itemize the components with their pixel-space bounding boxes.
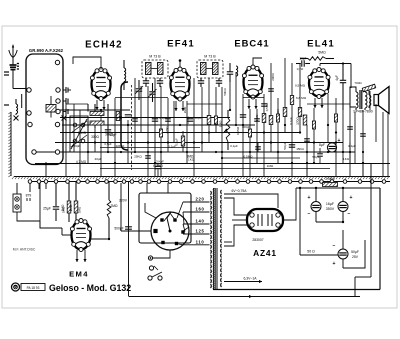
label Geloso Mod G132 xyxy=(49,283,131,293)
label R8 xyxy=(296,117,300,125)
badge box xyxy=(21,284,45,291)
svg-text:0,1µF: 0,1µF xyxy=(230,144,238,148)
tube EF41 arrows xyxy=(174,101,184,111)
cap C30 xyxy=(255,147,261,149)
svg-text:1MΩ: 1MΩ xyxy=(69,204,73,211)
svg-text:0,1µF: 0,1µF xyxy=(348,144,356,148)
left margin terminal a xyxy=(4,72,9,75)
voltage tap 160 xyxy=(183,207,205,224)
wire stub c xyxy=(249,163,251,176)
wire sec mid xyxy=(224,238,264,242)
cap C31 3KpF xyxy=(155,160,165,177)
tube ECH42 xyxy=(90,68,111,101)
svg-text:50µF: 50µF xyxy=(351,250,359,254)
resistor R25 xyxy=(298,108,301,117)
terminal 1 xyxy=(55,60,59,64)
wire jack top xyxy=(17,183,46,194)
cathode resistor R8 xyxy=(303,115,307,125)
filter caps label xyxy=(326,202,335,211)
rotary switch wiper xyxy=(167,212,172,233)
wire switch top loop xyxy=(145,203,156,218)
wire stub f xyxy=(306,163,308,176)
svg-text:170Ω: 170Ω xyxy=(296,117,300,125)
svg-text:879: 879 xyxy=(26,194,32,198)
chassis bus hatched xyxy=(12,177,390,180)
wire bus y163 xyxy=(35,163,390,165)
svg-text:110: 110 xyxy=(196,239,205,244)
wire el41 plate xyxy=(320,62,351,88)
resistor R14 xyxy=(276,108,287,117)
label 03M xyxy=(297,67,304,71)
wire filter v3 xyxy=(342,221,344,268)
cap C19 50uF xyxy=(333,243,359,267)
wire stub g xyxy=(335,152,337,176)
wire switch left xyxy=(129,230,152,232)
trimmer X1 xyxy=(14,116,19,121)
IF transformer T2 box xyxy=(142,60,168,78)
tube EL41 arrows xyxy=(313,98,323,108)
svg-text:+: + xyxy=(333,261,336,267)
label R1 xyxy=(61,204,65,211)
resistor R20 xyxy=(248,129,251,137)
cap C20 xyxy=(132,119,138,121)
svg-text:3 KpF: 3 KpF xyxy=(156,160,164,164)
wire filter h50 xyxy=(300,254,338,256)
label speaker xyxy=(353,110,373,114)
power transformer T5 secondary xyxy=(220,190,223,287)
svg-text:1MΩ: 1MΩ xyxy=(267,164,274,168)
svg-text:0,5µF: 0,5µF xyxy=(175,138,179,146)
cap C25 xyxy=(347,127,353,129)
IF T3 cap a xyxy=(198,78,204,87)
svg-text:16µF: 16µF xyxy=(326,202,335,206)
label 1MΩ c xyxy=(267,164,274,168)
svg-text:M.F. ANT.DISC: M.F. ANT.DISC xyxy=(13,248,36,252)
svg-text:50pF: 50pF xyxy=(195,116,202,120)
label 1KΩ xyxy=(343,157,350,161)
contact K3 xyxy=(63,109,68,115)
svg-text:6,8 MΩ: 6,8 MΩ xyxy=(296,96,307,100)
label C11 xyxy=(335,75,339,81)
label 50ohm xyxy=(307,250,315,254)
osc shield bracket xyxy=(121,82,128,150)
wire az41 anode bot xyxy=(224,225,247,246)
grid resistor R7 xyxy=(300,57,334,61)
label 0,5µF h xyxy=(104,142,111,146)
wire em4 grid xyxy=(62,228,72,235)
lamp symbol xyxy=(149,266,158,270)
label 20KΩ top xyxy=(271,72,275,80)
label 50pF xyxy=(109,133,116,137)
svg-text:EL41: EL41 xyxy=(307,39,335,50)
svg-text:283007: 283007 xyxy=(252,238,263,242)
svg-text:M 73 B: M 73 B xyxy=(204,55,216,59)
label GRUPPO A.F. xyxy=(29,48,64,53)
IF T2 coil a xyxy=(146,63,152,75)
wire sec bottom xyxy=(0,0,1,1)
contact K1 xyxy=(63,87,71,93)
osc screen dashed xyxy=(131,85,133,170)
osc coil T1 xyxy=(124,60,126,90)
wire stub e xyxy=(221,163,223,176)
resistor R24 xyxy=(290,96,293,105)
label R16 xyxy=(110,204,118,208)
junction dots xyxy=(100,109,364,164)
cap C12 xyxy=(152,116,167,121)
svg-text:30KΩ: 30KΩ xyxy=(105,133,114,137)
wire az41 anode top xyxy=(224,198,247,215)
svg-text:PA 18 93: PA 18 93 xyxy=(27,286,40,290)
contact K2 xyxy=(63,98,68,104)
svg-text:+: + xyxy=(338,138,341,144)
wire ef41 top xyxy=(179,59,182,66)
wire az41 left xyxy=(232,219,247,221)
svg-text:300Ω: 300Ω xyxy=(91,135,99,139)
svg-text:220: 220 xyxy=(195,197,204,202)
cap C23 xyxy=(254,119,260,121)
label EBC41 xyxy=(234,38,269,49)
svg-text:EF41: EF41 xyxy=(167,39,195,50)
label 0,1µF b xyxy=(168,145,176,149)
IF T2 cap b xyxy=(157,78,163,87)
terminal 10 xyxy=(55,150,59,154)
speaker LS1 cone xyxy=(374,87,389,114)
shield hatch left xyxy=(8,112,11,177)
bypass cap C10 xyxy=(327,143,336,152)
svg-text:700Ω: 700Ω xyxy=(354,81,362,85)
terminal 7 xyxy=(28,122,32,126)
label 200pF xyxy=(72,144,81,148)
wire stub i xyxy=(362,163,364,176)
resistor R23 xyxy=(334,114,337,122)
label 25KΩ xyxy=(134,155,142,159)
tube EL41 xyxy=(308,68,330,99)
tube EM4 xyxy=(70,219,91,252)
label 0,5µF v xyxy=(175,138,179,146)
wire ebc41 top xyxy=(253,58,262,65)
IF T2 coil b xyxy=(152,63,164,75)
svg-text:EM4: EM4 xyxy=(69,270,89,279)
heater line bottom xyxy=(224,277,262,284)
IF T3 cap b xyxy=(216,78,222,87)
label C3 xyxy=(43,207,51,211)
svg-text:0,5 MΩ: 0,5 MΩ xyxy=(295,83,306,87)
svg-text:2,5KΩ: 2,5KΩ xyxy=(325,177,335,181)
cap C22 xyxy=(165,119,171,121)
label ant small xyxy=(13,248,36,252)
filter cap C18 xyxy=(338,195,353,217)
resistor R5 xyxy=(116,112,120,121)
tone cap C11 xyxy=(340,64,346,110)
svg-text:140: 140 xyxy=(195,219,204,224)
tube EBC41 arrows xyxy=(247,99,257,109)
resistor R12 xyxy=(207,116,211,125)
label 0,5MΩ top xyxy=(265,102,269,111)
wire filter v2 xyxy=(342,188,344,222)
resistor R19 xyxy=(214,116,217,124)
voltage tap 220 xyxy=(177,197,205,218)
cap C13 xyxy=(187,116,202,121)
wire right drop xyxy=(213,188,380,290)
cap C21 xyxy=(145,156,151,158)
label C9 xyxy=(299,57,306,61)
resistor R3 lead xyxy=(88,104,95,128)
trimmer block box xyxy=(70,116,88,152)
label 879 xyxy=(26,194,32,198)
wire switch stem xyxy=(153,250,170,258)
svg-text:0,5µF: 0,5µF xyxy=(104,142,111,146)
wire antenna to terminal xyxy=(13,70,27,89)
svg-text:125: 125 xyxy=(195,229,204,234)
svg-text:15KΩ: 15KΩ xyxy=(296,147,304,151)
rotary switch SW1 circle xyxy=(151,212,189,250)
label 470Ω xyxy=(165,126,169,134)
wire em4 left xyxy=(40,221,62,228)
wire bus y104 seg xyxy=(66,103,350,105)
wire heater right xyxy=(354,277,356,296)
label EM4 xyxy=(69,270,89,279)
svg-text:50KΩ: 50KΩ xyxy=(223,88,227,96)
wire group left leg xyxy=(21,94,23,108)
svg-text:GR.990 A.F.X262: GR.990 A.F.X262 xyxy=(29,48,64,53)
svg-text:0,25M: 0,25M xyxy=(236,126,240,135)
svg-text:0,5M: 0,5M xyxy=(255,114,259,121)
coil L3 det xyxy=(236,66,238,76)
svg-text:6V~0,75A: 6V~0,75A xyxy=(232,189,248,193)
svg-text:+: + xyxy=(350,195,353,201)
svg-text:0,1µF: 0,1µF xyxy=(289,117,293,125)
filter cap C17 xyxy=(308,195,321,217)
svg-text:100pF: 100pF xyxy=(242,125,250,129)
wire stub h xyxy=(349,143,351,164)
svg-text:1MΩ: 1MΩ xyxy=(78,207,82,213)
wire bus y158 seg xyxy=(222,157,300,159)
label EF41 xyxy=(167,39,195,50)
terminal 8 xyxy=(32,150,36,154)
resistor R18 xyxy=(159,129,162,137)
wire em4 arrows xyxy=(75,250,86,262)
wire bus y142 xyxy=(55,142,343,144)
svg-text:25KΩ: 25KΩ xyxy=(134,155,142,159)
svg-text:2MΩ: 2MΩ xyxy=(183,106,187,113)
label R7 xyxy=(318,51,326,55)
svg-text:220V: 220V xyxy=(119,199,128,203)
svg-text:200pF: 200pF xyxy=(72,144,81,148)
cap C27 ebc xyxy=(261,104,267,106)
output transformer T4 xyxy=(350,87,371,110)
terminal 2 xyxy=(27,88,31,92)
resistor R26 xyxy=(181,131,184,152)
label 15KΩ xyxy=(296,147,304,151)
badge logo xyxy=(12,283,20,291)
svg-text:0,7Ω: 0,7Ω xyxy=(297,67,304,71)
resistor R21 xyxy=(276,114,279,122)
svg-text:Geloso - Mod. G132: Geloso - Mod. G132 xyxy=(49,283,131,293)
power transformer T5 core xyxy=(213,188,217,289)
svg-text:40µF: 40µF xyxy=(95,157,102,161)
wire bus y147 seg xyxy=(100,147,200,149)
IF T3 coil b xyxy=(207,63,219,75)
svg-text:4µF: 4µF xyxy=(335,75,339,81)
wire bus y132 xyxy=(60,132,300,134)
label ECH42 xyxy=(85,40,123,51)
label C10 xyxy=(319,143,325,147)
mains switch SW2 xyxy=(148,272,162,280)
svg-text:−: − xyxy=(348,211,351,217)
cap C29 xyxy=(317,148,323,164)
wire filter h2 xyxy=(343,240,365,268)
terminal 4 xyxy=(56,99,60,103)
label 3MΩ xyxy=(187,155,194,159)
trimmer C4 xyxy=(135,80,143,100)
wire bus y125 xyxy=(62,124,255,126)
switch enclosure box xyxy=(119,183,191,243)
cap C2 phono xyxy=(27,198,30,201)
voltage tap 125 xyxy=(183,229,205,234)
heater line top xyxy=(224,189,278,208)
wire ht rail xyxy=(296,187,380,189)
IF T2 label xyxy=(149,55,161,59)
wire filter v1 xyxy=(315,188,317,222)
label R2 xyxy=(69,204,73,211)
cap C26 xyxy=(360,134,366,136)
coil L1 xyxy=(16,99,18,115)
rotary switch contacts xyxy=(153,218,184,245)
cap C15 xyxy=(283,142,295,149)
wire right v2 xyxy=(355,163,371,277)
wire ech42 top xyxy=(73,57,101,70)
resistor R10 xyxy=(90,112,104,116)
resistor R2 1M xyxy=(74,182,78,220)
voltage tap 110 xyxy=(179,239,205,244)
svg-text:AZ41: AZ41 xyxy=(253,248,277,258)
plus C10 xyxy=(338,138,341,144)
label 300Ω xyxy=(91,135,99,139)
IF T3 label xyxy=(204,55,216,59)
svg-text:1KΩ: 1KΩ xyxy=(188,158,195,162)
label 68M xyxy=(295,83,307,100)
svg-text:25V: 25V xyxy=(352,255,359,259)
svg-text:5MΩ: 5MΩ xyxy=(318,51,326,55)
tube EBC41 xyxy=(242,65,263,99)
label 1KΩ m xyxy=(188,158,195,162)
svg-text:0,1µF: 0,1µF xyxy=(159,116,167,120)
volume pot R6 xyxy=(223,110,230,150)
label 5KpF b xyxy=(312,155,319,159)
wire stub b xyxy=(154,143,156,177)
label EL41 xyxy=(307,39,335,50)
label 1M right xyxy=(78,207,82,213)
wire stub a xyxy=(147,163,149,176)
terminal 6 xyxy=(56,109,60,113)
IF transformer T3 box xyxy=(197,60,223,78)
label 0,1 d xyxy=(230,144,238,148)
wire stub j xyxy=(257,143,259,153)
resistor R1 1M xyxy=(67,182,71,222)
svg-text:470Ω: 470Ω xyxy=(165,126,169,134)
svg-text:50 Ω: 50 Ω xyxy=(307,250,315,254)
wire az41 right xyxy=(283,188,296,220)
junction dots 2 xyxy=(87,124,364,164)
label 20KΩ xyxy=(78,131,87,135)
label 6,3MΩ xyxy=(153,164,163,168)
svg-text:0,5MΩ: 0,5MΩ xyxy=(244,155,254,159)
svg-text:350V: 350V xyxy=(326,207,335,211)
svg-text:M 73 B: M 73 B xyxy=(149,55,161,59)
cap C16 500pF xyxy=(114,227,132,231)
label 50KΩ b xyxy=(223,88,227,96)
wire bus y117 xyxy=(60,117,230,119)
cap C24 xyxy=(304,139,310,141)
svg-text:ECH42: ECH42 xyxy=(85,40,123,51)
label vol 1M xyxy=(219,120,223,127)
label AZ41 xyxy=(253,248,277,258)
cap C14 xyxy=(240,115,251,129)
label 0,1µF c xyxy=(348,144,356,148)
svg-text:−: − xyxy=(333,243,336,249)
antenna coupling cap C1 xyxy=(10,64,20,70)
resistor R13 xyxy=(255,114,266,123)
wire bus y152 xyxy=(36,151,355,153)
cap C7 xyxy=(125,115,131,117)
terminal 9 xyxy=(55,122,59,126)
label 10KpF xyxy=(116,144,125,148)
label 0,1µF top xyxy=(289,117,293,125)
label 1M left xyxy=(62,207,66,213)
resistor R22 xyxy=(312,121,315,129)
svg-text:100pF: 100pF xyxy=(186,116,190,124)
transformer taps xyxy=(183,202,210,245)
wire filter v300 xyxy=(299,187,344,255)
svg-text:500pF: 500pF xyxy=(114,227,123,231)
left margin terminal b xyxy=(4,104,9,106)
tube ECH42 cathode arrows xyxy=(95,100,105,110)
cap C9 coupling xyxy=(296,60,310,66)
svg-text:1MΩ: 1MΩ xyxy=(62,207,66,213)
shield box xyxy=(26,54,63,165)
label 40µF xyxy=(95,157,102,161)
label 300Ω b xyxy=(183,106,187,113)
wire mains vertical xyxy=(128,181,130,296)
svg-text:5KpF: 5KpF xyxy=(312,155,319,159)
wire bus y110 xyxy=(60,109,130,111)
terminal strip line xyxy=(28,181,390,183)
terminal 5 xyxy=(27,111,31,115)
wire jack down xyxy=(17,181,40,221)
svg-text:2MΩ: 2MΩ xyxy=(110,204,118,208)
wire mains drop x121 xyxy=(121,183,151,231)
svg-text:10pF: 10pF xyxy=(299,57,306,61)
wire filter h3 xyxy=(316,221,343,223)
label 30KΩ xyxy=(105,133,114,137)
cap C3 25uF xyxy=(53,183,59,221)
wire stub k xyxy=(0,0,1,1)
IF T2 cap a xyxy=(143,78,149,87)
cap C6 xyxy=(105,104,111,142)
trimmer X2 xyxy=(62,116,67,121)
voltage tap 140 xyxy=(183,219,205,232)
IF T3 coil a xyxy=(201,63,207,75)
tube AZ41 xyxy=(247,209,283,231)
coil L4 box xyxy=(46,96,56,118)
wire em4 top tie xyxy=(0,0,1,1)
svg-text:EBC41: EBC41 xyxy=(234,38,269,49)
tube EF41 xyxy=(169,67,190,101)
trimmer C5 xyxy=(149,83,157,102)
vertical wires mesh xyxy=(66,58,388,176)
svg-text:8µF: 8µF xyxy=(319,143,325,147)
cap C28 xyxy=(268,89,274,91)
